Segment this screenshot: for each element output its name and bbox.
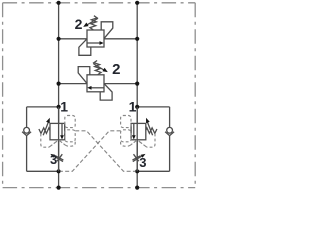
V4 throttle arrow shaft (133, 155, 144, 162)
crossed pilot lines (60, 131, 135, 172)
V3 spring (39, 128, 50, 133)
V3 throttle arrowhead (50, 154, 55, 158)
V4 spring (146, 128, 157, 133)
V2 pilot loop top-left (78, 67, 90, 84)
V4 adjustment arrowhead (146, 118, 150, 124)
counterbalance valve V4 (bottom right, label 1) (131, 107, 157, 171)
valve body V2 (87, 75, 104, 92)
V4 throttle cross stroke 1 (132, 156, 140, 160)
valve body V4 (131, 123, 146, 139)
V3 adjustment arrowhead (46, 118, 50, 124)
V4 throttle cross stroke 2 (134, 154, 139, 161)
relief valve V1 (top, label 2) (79, 16, 113, 56)
manifold enclosure border right (chain line) (194, 3, 196, 188)
V1 adjustment arrow shaft (86, 18, 98, 25)
relief valve V2 (second, label 2) (78, 61, 112, 101)
junction P1 / V2 line (57, 82, 61, 86)
V3 drain stub below (58, 140, 60, 172)
V4 lower dashed connector diagonal (130, 140, 137, 145)
V3 throttle cross stroke 1 (55, 156, 63, 160)
V1 internal arrowhead (100, 41, 104, 45)
manifold enclosure border bottom (chain line) (3, 187, 196, 189)
V3 pilot dashes (41, 116, 75, 148)
V4 upper dashed pilot box (121, 116, 131, 128)
V4 internal flow arrow (133, 124, 135, 136)
wire: left main vertical line P1 (58, 3, 60, 188)
junction P1 / left branch (57, 105, 61, 109)
V1 adjustment arrowhead (83, 23, 88, 27)
V1 internal flow arrow (87, 42, 100, 44)
wire: right branch vertical upper (169, 107, 171, 128)
junction P2 / V2 line (135, 82, 139, 86)
wire: right branch bottom y=171.3 (137, 170, 169, 172)
V2 spring (94, 61, 101, 75)
V3 lower dashed pilot box (65, 130, 75, 142)
V3 lower dashed connector arc (65, 142, 75, 146)
V3 throttle cross stroke 2 (57, 154, 62, 161)
pilot cross line right-to-left (60, 131, 120, 172)
V4 adjustment arrow shaft (147, 121, 153, 135)
V1 pilot loop top-right (101, 22, 113, 39)
V4 pilot dashes (121, 116, 155, 148)
V3 upper dashed pilot box (65, 116, 75, 128)
check valve right seat (165, 132, 174, 136)
svg-text:1: 1 (129, 98, 137, 114)
wire: left branch vertical upper (26, 107, 28, 128)
junction P2 top border (135, 1, 139, 5)
wire: top relief line y=38.8 right segment (104, 38, 137, 40)
svg-text:1: 1 (60, 99, 68, 115)
svg-text:3: 3 (50, 152, 57, 167)
junction P1 / left branch return (57, 169, 61, 173)
V4 internal arrowhead (down) (132, 135, 136, 139)
wire: second relief line y=83.6 right segment (104, 83, 137, 85)
pilot cross line left-to-right (75, 131, 135, 172)
V3 supply stub (58, 107, 60, 124)
junction P2 / right branch (135, 105, 139, 109)
V4 lower dashed pilot box (121, 130, 131, 142)
V3 internal flow arrow (61, 124, 63, 136)
wire: left branch top y=106.9 (27, 106, 59, 108)
wire: second relief line y=83.6 left segment (59, 83, 87, 85)
svg-text:2: 2 (112, 61, 120, 78)
V1 pilot loop bottom-left (79, 39, 91, 56)
svg-text:3: 3 (139, 155, 146, 170)
junction P1 top border (57, 1, 61, 5)
junction P1 / V1 line (57, 37, 61, 41)
V4 lower dashed connector arc (121, 142, 131, 146)
V3 lower dashed connector diagonal (59, 140, 66, 145)
manifold enclosure border left (chain line) (2, 3, 4, 188)
V3 throttle arrow shaft (52, 155, 63, 162)
check valve left ball (24, 127, 30, 133)
V3 adjustment arrow shaft (43, 121, 49, 135)
V2 adjustment arrowhead (102, 68, 107, 72)
V2 internal flow arrow (91, 87, 104, 89)
check valve right ball (167, 127, 173, 133)
valve body V3 (50, 123, 65, 139)
wire: right main vertical line P2 (136, 3, 138, 188)
junction P2 / right branch return (135, 169, 139, 173)
V4 spring dashed enclosure (147, 134, 155, 148)
wire: left branch bottom y=171.3 (27, 170, 59, 172)
V1 spring (90, 16, 97, 30)
V4 spring enclosure diagonal (137, 140, 146, 147)
junction P2 bottom border (135, 186, 139, 190)
V3 spring dashed enclosure (41, 134, 49, 148)
V4 throttle arrowhead (141, 154, 146, 158)
counterbalance valve V3 (bottom left, label 1) (39, 107, 65, 171)
V4 supply stub (136, 107, 138, 124)
svg-text:2: 2 (75, 16, 83, 32)
wire: right branch vertical lower (169, 136, 171, 172)
manifold enclosure border top (chain line) (3, 2, 196, 4)
wire: right branch top y=106.9 (137, 106, 169, 108)
V4 drain stub below (136, 140, 138, 172)
junction P1 bottom border (57, 186, 61, 190)
check valve left seat (22, 132, 31, 136)
valve body V1 (87, 30, 104, 47)
wire: top relief line y=38.8 left segment (59, 38, 87, 40)
V2 internal arrowhead (87, 86, 91, 90)
junction P2 / V1 line (135, 37, 139, 41)
V2 pilot loop bottom-right (100, 84, 112, 101)
V3 spring enclosure diagonal (49, 140, 58, 147)
V3 internal arrowhead (down) (60, 135, 64, 139)
wire: left branch vertical lower (26, 136, 28, 172)
V2 adjustment arrow shaft (93, 64, 105, 71)
